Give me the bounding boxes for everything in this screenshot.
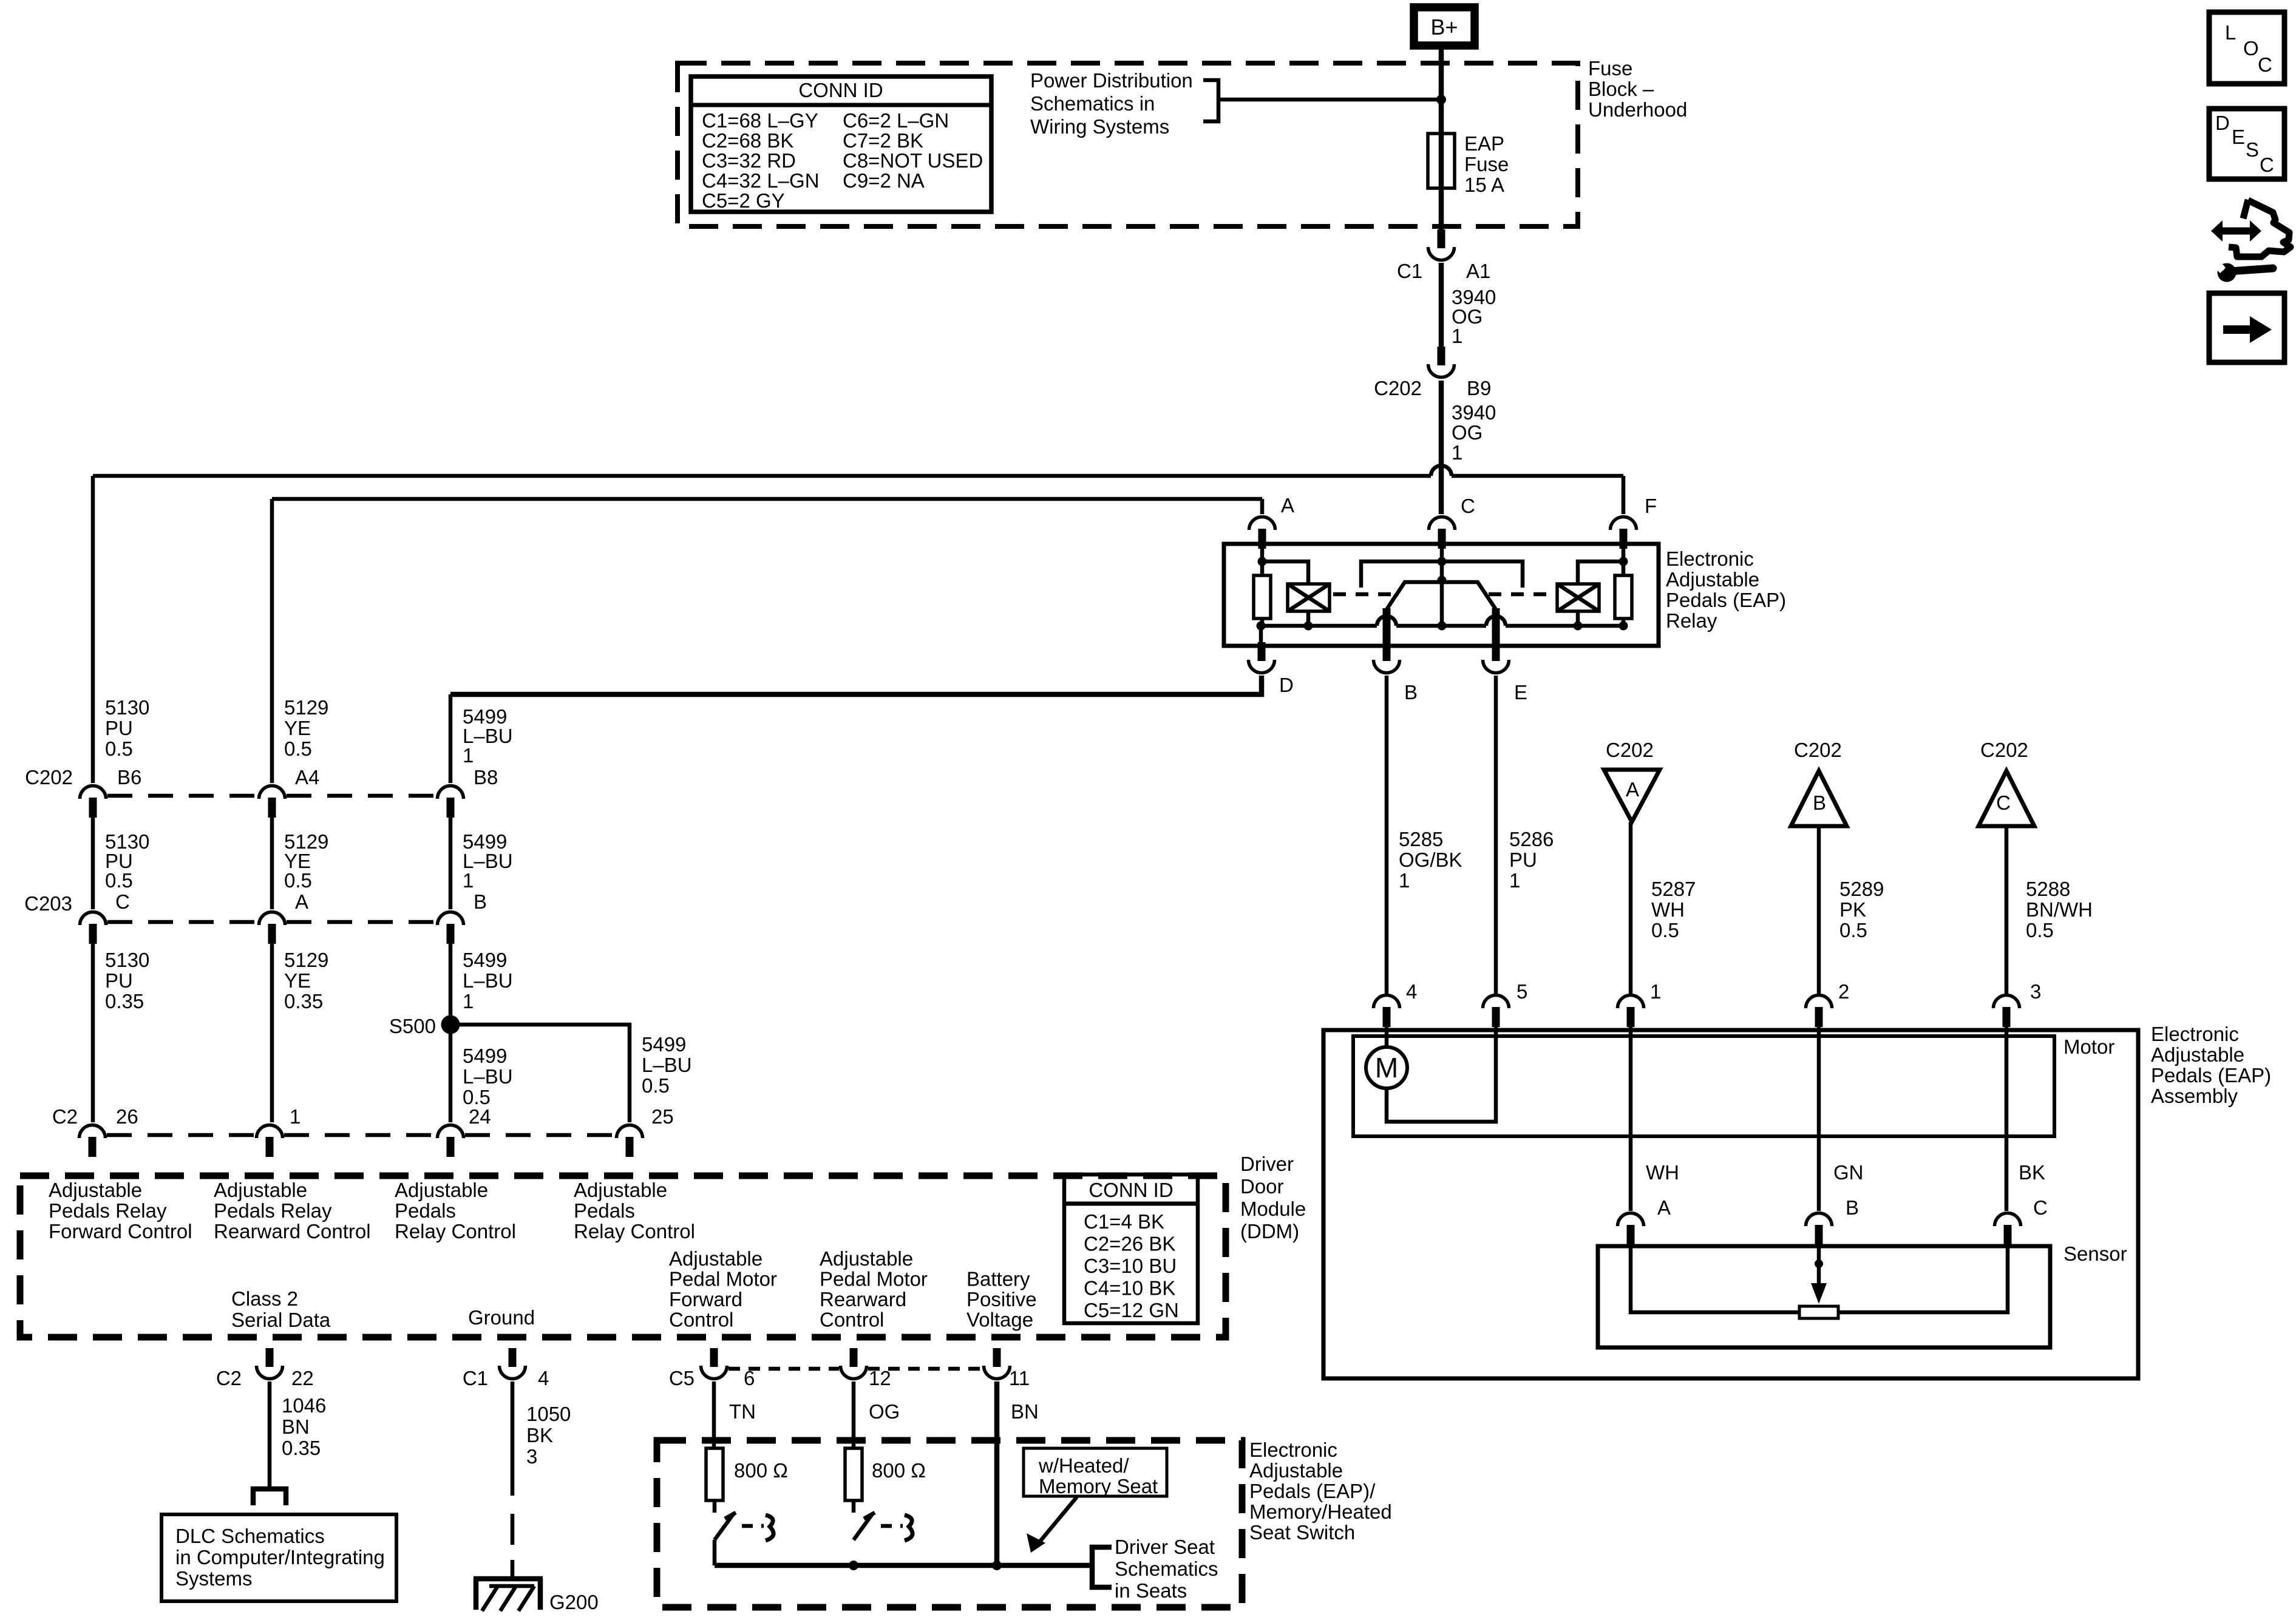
svg-text:A1: A1 [1466, 260, 1490, 282]
svg-text:C3=10 BU: C3=10 BU [1084, 1255, 1177, 1277]
svg-text:1050: 1050 [526, 1403, 571, 1425]
wire pin 1 through motor box [1629, 1026, 1633, 1211]
svg-text:Adjustable: Adjustable [49, 1179, 142, 1201]
wire 3940 OG 1 (C202 to relay C) [1439, 381, 1444, 514]
wire 1046 BN 0.35 [268, 1381, 272, 1487]
connector C2 pin 1 [257, 1125, 283, 1158]
assembly pin 4 connector [1374, 995, 1400, 1028]
potentiometer element [1799, 1306, 1838, 1318]
svg-text:BK: BK [2019, 1161, 2045, 1184]
resistor 800 ohm (rearward) [845, 1448, 862, 1500]
svg-text:OG: OG [1452, 421, 1483, 444]
C2 connector dashed row [107, 1133, 255, 1137]
svg-text:0.35: 0.35 [282, 1437, 321, 1459]
switch blade (forward) [715, 1513, 734, 1540]
svg-text:B: B [1846, 1196, 1859, 1219]
svg-text:1: 1 [1399, 869, 1410, 892]
svg-text:Voltage: Voltage [966, 1309, 1033, 1331]
svg-text:Rearward: Rearward [820, 1288, 906, 1310]
svg-text:BN/WH: BN/WH [2026, 898, 2093, 921]
sensor pin B connector [1806, 1213, 1832, 1246]
wire 3940 OG 1 (C1 to C202) [1439, 263, 1444, 348]
svg-text:Sensor: Sensor [2063, 1242, 2127, 1265]
svg-text:C1: C1 [1397, 260, 1422, 282]
relay right coil feed [1578, 561, 1623, 584]
wire 5129 YE 0.5 (C202-C203) [270, 818, 274, 909]
svg-text:Pedals (EAP)/: Pedals (EAP)/ [1249, 1480, 1376, 1502]
relay pin C connector [1429, 517, 1455, 549]
connector C5 pin 12 [841, 1348, 867, 1379]
wire 5289 PK 0.5 [1817, 826, 1821, 994]
svg-text:in Seats: in Seats [1115, 1579, 1187, 1602]
svg-text:B: B [1404, 681, 1418, 703]
svg-text:OG: OG [869, 1400, 900, 1423]
junction node on B+ trunk [1436, 95, 1446, 104]
relay pin F internal wire [1622, 546, 1626, 575]
wire 5499 L-BU 1 (C202-C203) [449, 818, 453, 909]
wire TN (pin 6) [712, 1381, 716, 1448]
relay right resistor [1615, 575, 1632, 619]
wire pin 3 through motor box [2005, 1026, 2009, 1211]
svg-text:Systems: Systems [175, 1567, 253, 1590]
relay armature (movable contact) [1387, 582, 1496, 609]
relay actuating elbow right [1442, 561, 1523, 588]
svg-text:Assembly: Assembly [2151, 1085, 2238, 1107]
svg-text:C203: C203 [24, 892, 72, 915]
svg-text:PU: PU [105, 717, 133, 739]
svg-text:1: 1 [1509, 869, 1520, 892]
wire 5499 branch S500 to pin 25 [450, 1025, 630, 1122]
svg-text:OG/BK: OG/BK [1399, 849, 1462, 871]
svg-text:C202: C202 [1980, 739, 2028, 761]
relay contact stub E [1492, 608, 1500, 645]
svg-text:C4=32 L–GN: C4=32 L–GN [702, 169, 820, 192]
sensor pin C connector [1995, 1213, 2021, 1246]
svg-text:4: 4 [538, 1367, 549, 1389]
svg-text:0.5: 0.5 [105, 869, 133, 892]
svg-text:C9=2 NA: C9=2 NA [843, 169, 925, 192]
relay right coil (box with X) [1557, 584, 1599, 611]
svg-text:Driver: Driver [1240, 1153, 1294, 1175]
svg-text:C202: C202 [1794, 739, 1842, 761]
svg-text:0.5: 0.5 [105, 737, 133, 760]
svg-text:Forward: Forward [669, 1288, 742, 1310]
connector C2 pin 26 [80, 1125, 106, 1158]
svg-text:Electronic: Electronic [1249, 1439, 1337, 1461]
svg-text:Block –: Block – [1588, 78, 1654, 100]
svg-text:L–BU: L–BU [463, 1065, 513, 1088]
wire 5499 L-BU 1 (C203-S500) [449, 943, 453, 1122]
connector C1 pin 4 [500, 1348, 526, 1379]
svg-text:Electronic: Electronic [1666, 547, 1754, 570]
svg-text:Adjustable: Adjustable [1666, 568, 1759, 591]
switch link dashes (forward) [742, 1524, 764, 1528]
relay dashed link right [1489, 592, 1555, 597]
relay pin D connector [1249, 642, 1275, 673]
svg-text:C7=2 BK: C7=2 BK [843, 129, 923, 152]
svg-text:PK: PK [1839, 898, 1866, 921]
CONN ID table (fuse block) [691, 76, 991, 212]
svg-text:800 Ω: 800 Ω [872, 1459, 926, 1482]
assembly pin 2 connector [1806, 995, 1832, 1028]
svg-text:Motor: Motor [2063, 1036, 2114, 1058]
svg-text:Underhood: Underhood [1588, 98, 1687, 121]
connector C2 pin 25 [617, 1125, 643, 1158]
fuse EAP 15A [1439, 136, 1444, 188]
connector C202 pin B8 [438, 786, 464, 818]
svg-text:Wiring Systems: Wiring Systems [1030, 115, 1169, 138]
svg-text:B9: B9 [1467, 377, 1491, 399]
svg-text:5285: 5285 [1399, 828, 1443, 850]
wire pin4 to motor [1385, 1026, 1389, 1047]
relay pin D internal wire [1259, 626, 1263, 643]
svg-text:Pedals (EAP): Pedals (EAP) [2151, 1064, 2271, 1086]
connector C5 pin 11 [984, 1348, 1010, 1379]
svg-text:5499: 5499 [463, 1045, 507, 1067]
svg-text:A4: A4 [295, 766, 319, 788]
svg-text:Serial Data: Serial Data [231, 1309, 331, 1331]
svg-text:1: 1 [290, 1105, 301, 1128]
svg-text:C1=68 L–GY: C1=68 L–GY [702, 109, 818, 132]
svg-text:Pedal Motor: Pedal Motor [669, 1268, 777, 1290]
resistor 800 ohm (forward) [706, 1448, 723, 1500]
svg-text:TN: TN [729, 1400, 756, 1423]
svg-text:4: 4 [1406, 980, 1417, 1003]
relay pin F connector [1611, 517, 1637, 549]
svg-text:C3=32 RD: C3=32 RD [702, 149, 796, 172]
svg-text:0.5: 0.5 [284, 869, 312, 892]
wire OG (pin 12) [852, 1381, 856, 1448]
svg-text:0.5: 0.5 [642, 1074, 670, 1097]
svg-text:F: F [1645, 495, 1657, 517]
wire 5285 OG/BK 1 (relay B to motor pin 4) [1385, 676, 1389, 994]
svg-text:B: B [474, 890, 487, 913]
svg-text:Adjustable: Adjustable [574, 1179, 667, 1201]
svg-text:5130: 5130 [105, 949, 149, 971]
svg-text:Pedals: Pedals [395, 1199, 456, 1222]
svg-text:Pedals (EAP): Pedals (EAP) [1666, 589, 1786, 611]
svg-text:WH: WH [1646, 1161, 1679, 1184]
callout arrow [1036, 1497, 1077, 1547]
relay pin E connector [1483, 642, 1509, 673]
svg-text:26: 26 [116, 1105, 138, 1128]
icon adjustable pedal (arrow + pedal + wrench) [2211, 200, 2291, 257]
svg-text:Adjustable: Adjustable [2151, 1043, 2244, 1066]
svg-text:1: 1 [463, 990, 474, 1012]
relay pin C internal wire [1440, 546, 1444, 561]
svg-text:GN: GN [1833, 1161, 1864, 1184]
svg-text:C2: C2 [216, 1367, 242, 1389]
svg-text:Relay: Relay [1666, 609, 1717, 632]
icon DESC box [2209, 109, 2284, 179]
svg-text:24: 24 [469, 1105, 491, 1128]
svg-text:A: A [1281, 494, 1294, 517]
svg-text:(DDM): (DDM) [1240, 1220, 1299, 1242]
svg-text:C: C [115, 890, 130, 913]
C203 connector dashed row [107, 920, 257, 924]
svg-text:S: S [2246, 138, 2259, 161]
svg-text:3940: 3940 [1452, 401, 1496, 424]
wire 1050 BK 3 (ground) [511, 1381, 515, 1496]
svg-text:C2: C2 [52, 1105, 78, 1128]
svg-text:E: E [2232, 126, 2245, 148]
driver door module DDM dashed box [20, 1176, 1226, 1337]
svg-text:C6=2 L–GN: C6=2 L–GN [843, 109, 949, 132]
fuse block underhood dashed box [678, 63, 1578, 226]
svg-text:Module: Module [1240, 1198, 1306, 1220]
connector C203 pin A [259, 912, 285, 944]
relay pin A connector [1249, 517, 1275, 549]
svg-text:5286: 5286 [1509, 828, 1554, 850]
svg-text:PU: PU [1509, 849, 1537, 871]
svg-text:5129: 5129 [284, 696, 328, 719]
svg-text:S500: S500 [389, 1015, 436, 1037]
svg-text:L–BU: L–BU [463, 969, 513, 992]
svg-text:O: O [2243, 37, 2259, 59]
svg-text:5: 5 [1517, 980, 1527, 1003]
svg-text:C5: C5 [669, 1367, 695, 1389]
splice S500 [441, 1015, 460, 1034]
svg-text:B6: B6 [117, 766, 141, 788]
svg-text:C: C [1461, 495, 1475, 517]
wire 5499 L-BU drop [449, 694, 453, 783]
svg-text:D: D [1279, 674, 1294, 696]
EAP memory heated seat switch dashed box [657, 1440, 1242, 1607]
svg-text:Pedals: Pedals [574, 1199, 635, 1222]
wire 5130 PU left drop [91, 476, 95, 783]
C5 connector dotted row [729, 1367, 839, 1371]
connector C203 pin C [80, 912, 106, 944]
svg-text:Adjustable: Adjustable [669, 1247, 763, 1270]
svg-text:5130: 5130 [105, 696, 149, 719]
sensor wiper wire B [1817, 1246, 1821, 1264]
svg-text:5288: 5288 [2026, 878, 2070, 900]
svg-text:E: E [1514, 681, 1527, 703]
svg-text:C1=4 BK: C1=4 BK [1084, 1210, 1164, 1233]
svg-text:Schematics: Schematics [1115, 1558, 1218, 1580]
svg-text:YE: YE [284, 969, 311, 992]
svg-text:C5=2 GY: C5=2 GY [702, 189, 785, 212]
svg-text:BN: BN [282, 1415, 310, 1438]
svg-text:Rearward Control: Rearward Control [214, 1220, 371, 1242]
wire 5130 PU 0.5 (C202-C203) [91, 818, 95, 909]
svg-text:25: 25 [651, 1105, 674, 1128]
svg-text:CONN ID: CONN ID [1089, 1179, 1173, 1201]
svg-text:0.35: 0.35 [284, 990, 323, 1012]
svg-text:C4=10 BK: C4=10 BK [1084, 1277, 1175, 1300]
svg-text:Relay Control: Relay Control [574, 1220, 695, 1242]
relay left coil (box with X) [1288, 584, 1330, 611]
svg-text:800 Ω: 800 Ω [734, 1459, 788, 1482]
svg-text:Pedals Relay: Pedals Relay [49, 1199, 167, 1222]
wire branch line to relay A [272, 497, 1262, 501]
svg-text:Electronic: Electronic [2151, 1023, 2239, 1045]
electronic adjustable pedals assembly box [1323, 1030, 2138, 1378]
svg-text:Fuse: Fuse [1464, 153, 1509, 175]
electronic adjustable pedals relay box [1224, 544, 1659, 646]
relay bottom bus with crossover hops [1261, 624, 1377, 628]
svg-text:Driver Seat: Driver Seat [1115, 1536, 1215, 1558]
svg-text:A: A [1626, 778, 1639, 801]
wire BN (pin 11) [994, 1381, 1000, 1565]
svg-text:1: 1 [1452, 325, 1462, 347]
svg-text:WH: WH [1651, 898, 1685, 921]
wire 5130 PU 0.35 (C203-DDM) [91, 943, 95, 1122]
svg-text:C2=68 BK: C2=68 BK [702, 129, 793, 152]
svg-text:C202: C202 [1606, 739, 1654, 761]
wire B+ to fuse [1439, 46, 1444, 136]
svg-text:11: 11 [1009, 1367, 1030, 1389]
svg-text:C: C [2258, 53, 2272, 76]
svg-text:0.5: 0.5 [1651, 919, 1679, 941]
svg-text:Memory Seat: Memory Seat [1039, 1475, 1158, 1497]
svg-text:A: A [295, 890, 308, 913]
wire 5129 YE left drop [270, 499, 274, 783]
svg-text:C: C [2033, 1196, 2048, 1219]
svg-text:1: 1 [1452, 441, 1462, 464]
svg-text:Forward Control: Forward Control [49, 1220, 192, 1242]
DDM CONN ID table [1064, 1175, 1198, 1323]
wire 5287 WH 0.5 [1629, 822, 1633, 994]
relay actuating elbow left [1361, 561, 1442, 588]
icon arrow box [2209, 293, 2284, 362]
svg-text:C: C [1996, 792, 2011, 814]
svg-text:B8: B8 [474, 766, 498, 788]
svg-text:Ground: Ground [468, 1306, 535, 1329]
svg-text:Battery: Battery [966, 1268, 1030, 1290]
relay left resistor [1254, 575, 1271, 619]
svg-text:15 A: 15 A [1464, 174, 1504, 196]
svg-text:0.5: 0.5 [284, 737, 312, 760]
ground symbol G200 [474, 1576, 543, 1582]
goes-to bracket (driver seat) [1092, 1547, 1112, 1587]
svg-text:C202: C202 [25, 766, 73, 788]
assembly pin 3 connector [1994, 995, 2020, 1028]
svg-text:Class 2: Class 2 [231, 1287, 298, 1310]
svg-text:BN: BN [1011, 1400, 1039, 1423]
svg-text:Schematics in: Schematics in [1030, 92, 1155, 115]
switch common bus wire [715, 1563, 1092, 1568]
connector C5 pin 6 [701, 1348, 727, 1379]
svg-text:0.5: 0.5 [1839, 919, 1867, 941]
svg-text:0.35: 0.35 [105, 990, 144, 1012]
svg-text:5499: 5499 [642, 1033, 686, 1056]
svg-text:B: B [1813, 792, 1826, 814]
svg-text:Adjustable: Adjustable [1249, 1459, 1343, 1482]
wire fuse to connector C1 [1439, 188, 1444, 231]
svg-text:YE: YE [284, 717, 311, 739]
svg-text:Memory/Heated: Memory/Heated [1249, 1500, 1392, 1523]
svg-text:A: A [1657, 1196, 1671, 1219]
svg-text:C8=NOT USED: C8=NOT USED [843, 149, 983, 172]
svg-text:5289: 5289 [1839, 878, 1884, 900]
assembly pin 5 connector [1483, 995, 1509, 1028]
svg-text:Control: Control [669, 1309, 733, 1331]
sensor pin A connector [1618, 1213, 1644, 1246]
svg-text:C1: C1 [463, 1367, 488, 1389]
svg-text:EAP: EAP [1464, 132, 1504, 155]
battery feed B+ terminal [1414, 7, 1475, 46]
goes-to bracket (DLC) [253, 1489, 286, 1505]
svg-text:L: L [2225, 21, 2236, 44]
svg-text:1: 1 [463, 744, 474, 767]
svg-text:3: 3 [526, 1445, 537, 1468]
svg-text:2: 2 [1838, 980, 1849, 1003]
svg-text:L–BU: L–BU [642, 1054, 692, 1076]
motor sub-box [1353, 1036, 2054, 1136]
w/heated memory seat callout box [1024, 1448, 1167, 1496]
assembly pin 1 connector [1618, 995, 1644, 1028]
switch blade (rearward) [854, 1513, 873, 1540]
sensor wire C to potentiometer [1838, 1246, 2008, 1312]
svg-text:Seat Switch: Seat Switch [1249, 1521, 1355, 1544]
svg-text:G200: G200 [549, 1591, 599, 1613]
svg-text:Control: Control [820, 1309, 884, 1331]
svg-text:Fuse: Fuse [1588, 57, 1632, 80]
svg-text:in Computer/Integrating: in Computer/Integrating [175, 1546, 385, 1568]
relay pin A internal wire [1260, 546, 1265, 575]
svg-text:C: C [2260, 154, 2274, 176]
DLC schematics reference box [161, 1514, 396, 1601]
svg-text:C202: C202 [1374, 377, 1422, 399]
switch link dashes (rearward) [881, 1524, 903, 1528]
wire 5129 YE 0.35 (C203-DDM) [270, 943, 274, 1122]
relay dashed link left [1333, 592, 1398, 597]
svg-text:BK: BK [526, 1424, 553, 1446]
svg-text:5129: 5129 [284, 949, 328, 971]
sensor wire A to potentiometer [1631, 1246, 1799, 1312]
connector C202 pin B9 [1428, 347, 1455, 378]
svg-text:PU: PU [105, 969, 133, 992]
svg-text:w/Heated/: w/Heated/ [1038, 1454, 1129, 1477]
wire branch line to relay F (hops over B+ trunk) [93, 474, 1431, 478]
motor M circle [1366, 1047, 1407, 1088]
C202 connector dashed row [107, 794, 257, 798]
svg-text:3: 3 [2030, 980, 2041, 1003]
svg-text:Adjustable: Adjustable [820, 1247, 913, 1270]
svg-text:C2=26 BK: C2=26 BK [1084, 1233, 1175, 1255]
svg-text:Pedals Relay: Pedals Relay [214, 1199, 332, 1222]
svg-text:5499: 5499 [463, 949, 507, 971]
svg-text:M: M [1375, 1052, 1398, 1083]
svg-text:DLC Schematics: DLC Schematics [175, 1525, 325, 1547]
connector C2 pin 22 [257, 1348, 283, 1379]
svg-text:1: 1 [1650, 980, 1661, 1003]
wire from power distribution to B+ trunk [1218, 98, 1441, 102]
connector C203 pin B [438, 912, 464, 944]
svg-text:1046: 1046 [282, 1394, 326, 1417]
connector C1 pin A1 [1428, 229, 1455, 260]
connector C202 pin A4 [259, 786, 285, 818]
svg-text:22: 22 [291, 1367, 314, 1389]
svg-text:5287: 5287 [1651, 878, 1696, 900]
svg-text:B+: B+ [1430, 15, 1458, 39]
svg-text:0.5: 0.5 [2026, 919, 2054, 941]
relay contact stub B [1383, 608, 1391, 645]
wire 5288 BN/WH 0.5 [2005, 826, 2009, 994]
wire motor loop to pin 5 [1387, 1026, 1496, 1122]
svg-text:Positive: Positive [966, 1288, 1037, 1310]
svg-text:D: D [2215, 112, 2230, 134]
svg-text:Adjustable: Adjustable [214, 1179, 307, 1201]
svg-text:1: 1 [463, 869, 474, 892]
svg-text:C5=12 GN: C5=12 GN [1084, 1299, 1179, 1321]
connector C202 pin B6 [80, 786, 106, 818]
svg-text:CONN ID: CONN ID [798, 79, 883, 101]
svg-text:Pedal Motor: Pedal Motor [820, 1268, 928, 1290]
svg-text:Relay Control: Relay Control [395, 1220, 516, 1242]
wire pin 2 through motor box [1817, 1026, 1821, 1211]
